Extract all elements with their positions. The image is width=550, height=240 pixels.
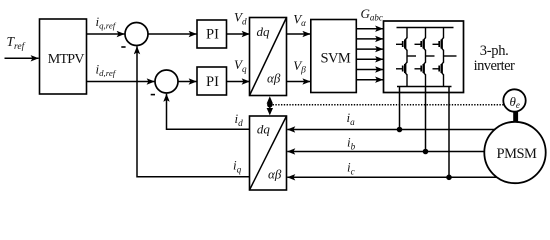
wire T_ref input arrow [5, 57, 39, 59]
inverter top bus [397, 27, 454, 29]
svg-text:Vβ: Vβ [293, 58, 306, 75]
wire leg mid + phase tap stub [406, 50, 408, 63]
svg-text:iq: iq [233, 158, 242, 175]
encoder theta_e circle [503, 89, 525, 111]
inverter bottom bus [397, 86, 452, 88]
svg-text:θe: θe [510, 94, 520, 110]
svg-text:Gabc: Gabc [361, 6, 383, 23]
svg-text:Vα: Vα [293, 12, 306, 28]
svg-text:ib: ib [347, 135, 356, 152]
wire gate signal 6 [356, 79, 383, 81]
wire i_q feedback to summing node 1 [137, 46, 250, 177]
wire leg mid + phase tap stub [425, 50, 427, 63]
svg-text:dq: dq [257, 122, 271, 137]
wire dq to SVM (V_alpha) [287, 33, 311, 35]
svg-text:id: id [235, 111, 244, 128]
svg-text:Vd: Vd [234, 10, 247, 27]
wire i_a from PMSM to dq block [287, 129, 495, 131]
minus sign at node 1 [121, 46, 125, 48]
junction dot phase c [446, 175, 452, 181]
wire gate signal 2 [356, 38, 383, 40]
junction dot phase a [397, 127, 403, 133]
svg-text:SVM: SVM [321, 50, 351, 66]
svg-text:dq: dq [257, 24, 271, 39]
svg-text:ic: ic [347, 160, 355, 177]
svg-text:MTPV: MTPV [48, 52, 85, 67]
svg-text:Vq: Vq [234, 57, 247, 74]
minus sign at node 2 [151, 94, 155, 96]
wire i_d feedback to summing node 2 [167, 94, 250, 129]
block dq/ab transform U1 (top) [250, 18, 287, 96]
transistor Q6 (leg3 lower) [433, 62, 444, 86]
wire gate signal 4 [356, 58, 383, 60]
wire inverter phase b down [425, 87, 427, 152]
transistor Q2 (leg1 lower) [396, 62, 407, 86]
summing junction node 1 [125, 23, 148, 46]
encoder shaft connector [513, 112, 518, 123]
block 3-phase inverter outline [384, 21, 464, 93]
svg-text:iq,ref: iq,ref [96, 14, 117, 31]
wire summing node 1 to PI1 [148, 33, 197, 35]
wire MTPV to summing node 1 (i_q,ref) [87, 33, 125, 35]
svg-text:αβ: αβ [267, 70, 281, 85]
svg-text:PI: PI [206, 74, 219, 90]
dotted theta vertical link with arrows to both dq blocks [269, 99, 271, 112]
diagonal of U1 [250, 18, 287, 96]
transistor Q1 (leg1 upper) [396, 28, 407, 51]
svg-text:3-ph.: 3-ph. [480, 43, 509, 59]
svg-text:PMSM: PMSM [497, 146, 538, 162]
transistor Q5 (leg3 upper) [433, 28, 444, 51]
dotted theta_e feedback line [270, 104, 504, 106]
svg-text:PI: PI [206, 26, 219, 42]
junction dot on theta line [267, 102, 272, 107]
wire MTPV to summing node 2 (i_d,ref) [87, 81, 155, 83]
wire gate signal 1 [356, 28, 383, 30]
wire dq to SVM (V_beta) [287, 81, 311, 83]
wire i_b from PMSM to dq block [287, 151, 484, 153]
svg-text:ia: ia [347, 110, 356, 127]
transistor Q4 (leg2 lower) [415, 62, 426, 86]
block PI1 [197, 20, 227, 48]
wire leg mid + phase tap stub [443, 50, 445, 63]
summing junction node 2 [155, 70, 178, 93]
block MTPV [40, 19, 87, 94]
wire PI2 to dq block (V_q) [227, 81, 250, 83]
junction dot phase b [423, 149, 429, 155]
wire inverter phase c down [448, 87, 450, 178]
transistor Q3 (leg2 upper) [415, 28, 426, 51]
svg-text:id,ref: id,ref [96, 61, 117, 78]
block dq/ab transform U2 (bottom) [250, 116, 287, 190]
wire gate signal 3 [356, 48, 383, 50]
diagonal of U2 [250, 116, 287, 190]
wire gate signal 5 [356, 69, 383, 71]
block PI2 [197, 67, 227, 95]
block SVM [311, 20, 357, 93]
wire PI1 to dq block (V_d) [227, 33, 250, 35]
motor PMSM circle [484, 122, 545, 183]
svg-text:inverter: inverter [474, 58, 515, 74]
svg-text:Tref: Tref [7, 34, 26, 52]
wire i_c from PMSM to dq block [287, 176, 498, 178]
wire summing node 2 to PI2 [178, 81, 197, 83]
wire inverter phase a down [399, 87, 401, 130]
svg-text:αβ: αβ [268, 167, 282, 182]
inverter legs with transistors [396, 28, 457, 87]
